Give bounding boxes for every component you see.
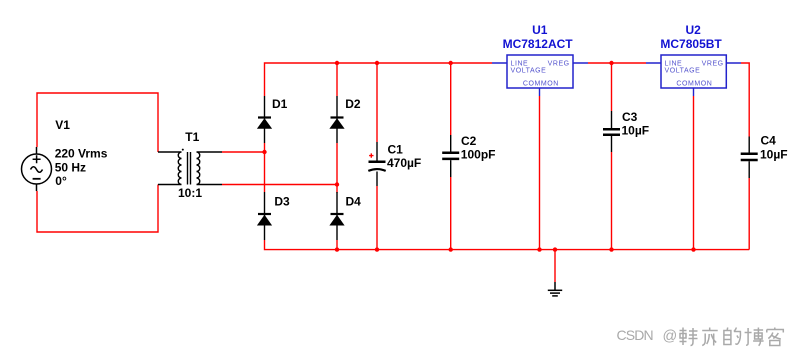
svg-text:D1: D1: [272, 97, 288, 111]
svg-text:VREG: VREG: [702, 60, 724, 67]
svg-text:V1: V1: [55, 118, 70, 132]
svg-text:VOLTAGE: VOLTAGE: [665, 67, 701, 74]
svg-text:D2: D2: [345, 97, 361, 111]
svg-text:470µF: 470µF: [387, 156, 421, 170]
svg-text:U2: U2: [686, 23, 702, 37]
svg-text:10µF: 10µF: [760, 147, 788, 161]
svg-text:220 Vrms: 220 Vrms: [55, 147, 108, 161]
svg-text:C2: C2: [461, 134, 477, 148]
svg-text:10µF: 10µF: [622, 123, 650, 137]
svg-text:VREG: VREG: [548, 60, 570, 67]
svg-text:D4: D4: [346, 195, 362, 209]
svg-text:10:1: 10:1: [178, 186, 202, 200]
svg-text:MC7805BT: MC7805BT: [660, 37, 722, 51]
svg-text:COMMON: COMMON: [676, 80, 712, 87]
svg-text:100pF: 100pF: [461, 147, 496, 161]
svg-text:C1: C1: [388, 143, 404, 157]
svg-text:50 Hz: 50 Hz: [55, 161, 86, 175]
svg-text:MC7812ACT: MC7812ACT: [503, 37, 574, 51]
svg-text:C3: C3: [622, 110, 638, 124]
svg-text:COMMON: COMMON: [523, 80, 559, 87]
svg-text:0°: 0°: [55, 174, 67, 188]
svg-text:LINE: LINE: [511, 60, 529, 67]
svg-text:LINE: LINE: [665, 60, 683, 67]
svg-text:@: @: [663, 329, 678, 345]
svg-text:C4: C4: [761, 134, 777, 148]
svg-text:T1: T1: [185, 130, 199, 144]
svg-text:CSDN: CSDN: [617, 327, 653, 343]
svg-text:U1: U1: [532, 23, 548, 37]
svg-text:VOLTAGE: VOLTAGE: [511, 67, 547, 74]
svg-text:D3: D3: [274, 195, 290, 209]
